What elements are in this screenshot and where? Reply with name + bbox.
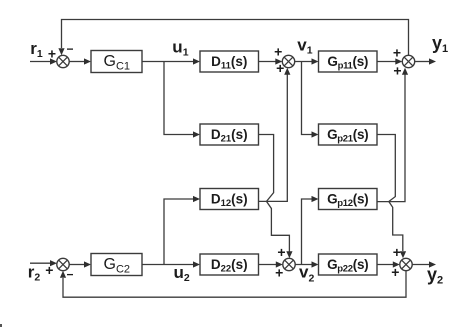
- wire Gp11 to y1 junction: [377, 58, 402, 64]
- wire Gp22 to y2 junction: [377, 261, 400, 267]
- block GC1: [91, 51, 142, 73]
- wire D12 output up to v1 junction: [259, 68, 291, 202]
- svg-text:+: +: [393, 244, 401, 260]
- block D11: [200, 51, 259, 72]
- summing junction y1: [402, 55, 414, 67]
- wire u2 branch to D12: [164, 196, 200, 265]
- wire feedback y1 to J1: [58, 20, 408, 56]
- wire v2 to Gp22: [295, 261, 318, 267]
- svg-text:−: −: [66, 268, 73, 282]
- wire v1 to Gp11: [295, 58, 319, 64]
- wire J1 to GC1: [69, 58, 91, 64]
- block Gp11: [319, 51, 378, 72]
- wire r2 input: [30, 260, 57, 266]
- svg-text:u1: u1: [172, 37, 188, 58]
- block D21: [200, 124, 259, 145]
- wire Gp12 output up to y1 junction: [377, 68, 408, 202]
- wire D22 to v2 junction: [259, 261, 283, 267]
- node artifact mark bottom-left: [0, 324, 2, 327]
- block GC2: [91, 254, 142, 276]
- svg-text:+: +: [393, 44, 401, 60]
- svg-text:u2: u2: [174, 263, 190, 284]
- svg-text:+: +: [45, 262, 53, 278]
- summing junction v2: [283, 258, 295, 270]
- svg-text:+: +: [393, 62, 401, 78]
- summing junction y2: [400, 258, 412, 270]
- svg-text:+: +: [391, 264, 399, 280]
- svg-text:+: +: [277, 244, 285, 260]
- wire D21 output down to v2 junction: [259, 135, 293, 259]
- svg-text:r1: r1: [30, 39, 43, 60]
- wire r1 input: [30, 58, 57, 64]
- wire u1 branch to D21: [164, 62, 200, 138]
- svg-text:r2: r2: [28, 263, 41, 284]
- summing junction J1 (r1): [57, 55, 69, 67]
- wire GC1 to D11: [142, 58, 200, 64]
- summing junction J2 (r2): [57, 258, 69, 270]
- svg-text:y2: y2: [427, 264, 443, 286]
- block D22: [200, 254, 259, 275]
- wire Gp21 output down to y2 junction: [377, 135, 406, 259]
- svg-text:y1: y1: [432, 33, 448, 55]
- block Gp22: [319, 254, 378, 275]
- wire y1 output: [415, 58, 436, 64]
- block Gp12: [319, 189, 378, 210]
- wire v1 tap to Gp21: [302, 62, 319, 138]
- wire y2 output: [412, 261, 436, 267]
- block Gp21: [319, 124, 378, 145]
- wire v2 tap to Gp12: [302, 196, 319, 265]
- block D12: [200, 189, 259, 210]
- wire GC2 to D22: [142, 261, 200, 267]
- svg-text:−: −: [66, 42, 73, 56]
- svg-text:+: +: [274, 44, 282, 60]
- svg-text:v1: v1: [297, 36, 312, 57]
- summing junction v1: [282, 55, 294, 67]
- wire feedback y2 to J2: [60, 271, 406, 298]
- wire D11 to v1 junction: [259, 58, 283, 64]
- svg-text:+: +: [48, 45, 56, 61]
- wire J2 to GC2: [69, 261, 91, 267]
- svg-text:+: +: [275, 265, 283, 281]
